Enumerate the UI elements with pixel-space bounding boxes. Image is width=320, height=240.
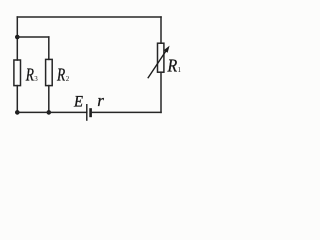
wire bottom rail left [17, 111, 87, 113]
svg-text:1: 1 [178, 66, 182, 74]
svg-text:r: r [97, 91, 104, 110]
wire R3 bottom lead [16, 86, 18, 113]
wire top rail [17, 16, 161, 18]
wire branch horizontal to R2 [17, 36, 49, 38]
rheostat arrow head [164, 46, 170, 53]
junction dot bottom-left corner [15, 110, 20, 115]
junction dot R2 on bottom rail [47, 110, 52, 115]
svg-text:2: 2 [66, 75, 70, 83]
resistor R1 rheostat body [158, 43, 164, 72]
svg-text:3: 3 [34, 75, 38, 83]
svg-text:R: R [56, 64, 65, 84]
wire bottom rail right [91, 111, 161, 113]
junction node (dot) at branch point [15, 35, 20, 40]
svg-text:R: R [25, 64, 34, 84]
wire R2 top lead [48, 37, 50, 59]
battery E long plate [86, 104, 88, 121]
wire R2 bottom lead [48, 86, 50, 113]
wire right rail top section [160, 17, 162, 43]
wire left rail top section [16, 17, 18, 60]
rheostat arrow shaft [148, 51, 166, 78]
svg-text:R: R [167, 56, 178, 76]
resistor R3 body [14, 60, 21, 86]
wire right rail bottom section [160, 72, 162, 112]
svg-text:E: E [73, 93, 83, 110]
resistor R2 body [46, 59, 53, 85]
battery E short thick plate [89, 108, 92, 117]
